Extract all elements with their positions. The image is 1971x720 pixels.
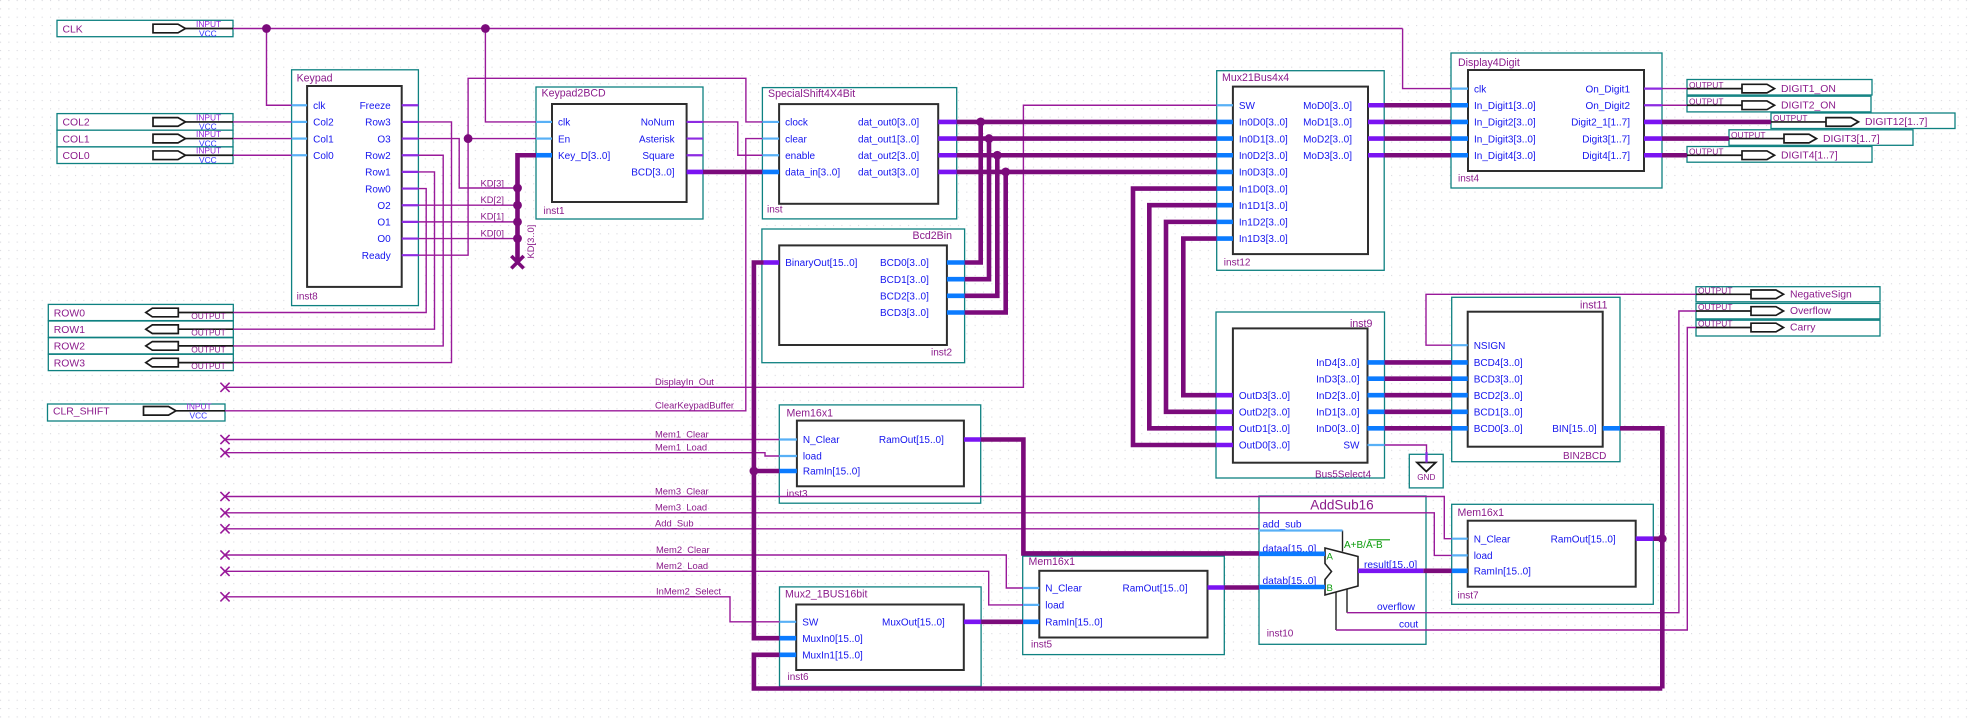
svg-text:ClearKeypadBuffer: ClearKeypadBuffer — [655, 400, 734, 411]
svg-text:In_Digit1[3..0]: In_Digit1[3..0] — [1474, 101, 1536, 112]
wire Keypad Row1 to ROW1 pin — [233, 172, 434, 329]
svg-text:CLR_SHIFT: CLR_SHIFT — [53, 407, 110, 418]
svg-text:O2: O2 — [377, 201, 391, 212]
svg-text:clk: clk — [1474, 84, 1487, 95]
pin stub Keypad Col2 — [292, 121, 308, 123]
net terminator X Mem2_Load — [220, 567, 229, 576]
svg-text:SW: SW — [1239, 101, 1256, 112]
svg-text:MoD0[3..0]: MoD0[3..0] — [1303, 101, 1352, 112]
output pin Overflow — [1696, 302, 1880, 319]
wire Keypad Row2 to ROW2 pin — [233, 155, 443, 346]
svg-text:ROW3: ROW3 — [54, 358, 85, 369]
svg-text:In0D0[3..0]: In0D0[3..0] — [1239, 118, 1288, 129]
bus Bus5 InD3 to BIN2BCD BCD3 — [1385, 376, 1452, 381]
component Keypad2BCD inst1 — [536, 87, 703, 219]
svg-text:MoD2[3..0]: MoD2[3..0] — [1303, 134, 1352, 145]
wire CLK drop to Keypad2BCD clk — [485, 29, 536, 122]
pin stub inst6 MuxOut — [964, 619, 981, 624]
svg-text:inst11: inst11 — [1580, 300, 1608, 312]
bus dat_out0 branch to Bcd2Bin BCD0 — [965, 122, 981, 263]
bus Bus5 OutD0 to Mux21 In1D0 — [1133, 189, 1217, 445]
bus Bus5 InD4 to BIN2BCD BCD4 — [1385, 360, 1452, 365]
svg-text:CLK: CLK — [63, 24, 83, 35]
svg-text:Bcd2Bin: Bcd2Bin — [913, 230, 953, 242]
svg-text:inst4: inst4 — [1458, 174, 1480, 185]
svg-text:MuxIn0[15..0]: MuxIn0[15..0] — [802, 634, 863, 645]
bus inst6 MuxOut to inst5 RamIn — [981, 619, 1023, 624]
junction KD[3] on KD bus — [513, 184, 522, 193]
pin stub Display4Digit Digit3 — [1644, 136, 1662, 141]
net terminator X Mem1_Clear — [220, 435, 229, 444]
svg-text:BCD1[3..0]: BCD1[3..0] — [1474, 408, 1523, 419]
wire On_Digit1 to DIGIT1_ON — [1662, 88, 1687, 90]
svg-text:BCD[3..0]: BCD[3..0] — [631, 168, 675, 179]
svg-text:DisplayIn_Out: DisplayIn_Out — [655, 376, 714, 387]
wire COL2 to Keypad Col2 — [233, 121, 292, 123]
junction dat_out2 branch — [993, 151, 1002, 160]
pin stub inst7 load — [1452, 554, 1468, 556]
wire Add_Sub to AddSub16 add_sub — [225, 528, 1259, 530]
svg-text:Ready: Ready — [362, 251, 391, 262]
pin stub Keypad2BCD Asterisk — [687, 137, 703, 139]
svg-text:Col0: Col0 — [313, 151, 334, 162]
component AddSub16 inst10 adder-subtractor — [1259, 496, 1426, 644]
svg-text:VCC: VCC — [199, 155, 217, 165]
bus Digit4 to DIGIT4 pin — [1662, 153, 1687, 158]
svg-text:dat_out0[3..0]: dat_out0[3..0] — [858, 118, 919, 129]
pin stub Mux21 MoD1 — [1368, 120, 1384, 125]
bus Bus5 InD0 to BIN2BCD BCD0 — [1385, 426, 1452, 431]
svg-text:Mux21Bus4x4: Mux21Bus4x4 — [1222, 72, 1289, 84]
svg-text:BCD0[3..0]: BCD0[3..0] — [880, 258, 929, 269]
pin stub inst6 MuxIn0 — [780, 636, 797, 641]
svg-text:data_in[3..0]: data_in[3..0] — [785, 168, 840, 179]
pin stub Display4Digit clk — [1451, 87, 1468, 89]
pin stub SpecialShift data_in — [762, 170, 779, 175]
svg-text:BCD3[3..0]: BCD3[3..0] — [1474, 374, 1523, 385]
svg-text:N_Clear: N_Clear — [1474, 534, 1511, 545]
pin stub Bus5Select4 InD0 — [1368, 426, 1385, 431]
bus inst3 RamOut to AddSub16 dataa — [981, 440, 1259, 554]
pin stub Mux21 In1D2 — [1217, 220, 1233, 225]
pin stub Bus5Select4 OutD1 — [1216, 426, 1233, 431]
pin stub inst5 load — [1023, 604, 1039, 606]
svg-text:OutD3[3..0]: OutD3[3..0] — [1239, 391, 1290, 402]
svg-text:InD3[3..0]: InD3[3..0] — [1316, 374, 1360, 385]
pin stub BIN2BCD BCD1 — [1452, 409, 1468, 414]
bus dat_out1 to Mux21 In0D1 — [957, 136, 1217, 141]
pin stub Keypad Row3 — [402, 121, 419, 123]
net terminator X InMem2_Select — [220, 592, 229, 601]
net terminator X Mem2_Clear — [220, 550, 229, 559]
component Display4Digit inst4 — [1451, 53, 1662, 188]
svg-text:cout: cout — [1399, 619, 1418, 630]
pin stub inst3 RamIn — [779, 469, 797, 474]
pin stub Bus5Select4 InD2 — [1368, 393, 1385, 398]
junction dat_out1 branch — [985, 134, 994, 143]
svg-text:AddSub16: AddSub16 — [1310, 498, 1374, 513]
bus dat_out2 to Mux21 In0D2 — [957, 153, 1217, 158]
wire DisplayIn_Out net — [225, 105, 1217, 387]
svg-text:add_sub: add_sub — [1263, 519, 1302, 530]
junction CLK / Keypad clk — [262, 24, 271, 33]
wire Keypad Row3 to ROW3 pin — [233, 122, 451, 363]
pin stub Keypad Row1 — [402, 171, 419, 173]
svg-text:InMem2_Select: InMem2_Select — [656, 586, 722, 597]
component Mux2_1BUS16bit inst6 — [780, 587, 982, 687]
wire Ready net to SpecialShift clock — [468, 78, 762, 138]
pin stub Display4Digit Digit2_1 — [1644, 120, 1662, 125]
svg-text:DIGIT12[1..7]: DIGIT12[1..7] — [1865, 117, 1927, 128]
pin stub Mux21 In1D0 — [1217, 186, 1233, 191]
output pin ROW0 — [48, 304, 233, 321]
svg-text:overflow: overflow — [1377, 602, 1416, 613]
input pin COL2 — [57, 112, 233, 131]
svg-text:Row2: Row2 — [365, 151, 391, 162]
wire Mem2_Load to inst5 load — [225, 571, 1023, 605]
net terminator X Mem3_Clear — [220, 492, 229, 501]
svg-text:COL1: COL1 — [63, 134, 90, 145]
output pin DIGIT3 — [1729, 130, 1913, 146]
svg-text:InD0[3..0]: InD0[3..0] — [1316, 424, 1360, 435]
svg-text:Mem16x1: Mem16x1 — [787, 408, 834, 420]
input pin COL1 — [57, 129, 233, 148]
svg-text:MuxOut[15..0]: MuxOut[15..0] — [882, 618, 945, 629]
pin stub Mux21 In1D1 — [1217, 203, 1233, 208]
svg-text:Keypad: Keypad — [297, 73, 333, 85]
svg-text:VCC: VCC — [199, 28, 217, 38]
junction CLK / Keypad2BCD clk — [481, 24, 490, 33]
svg-text:ROW1: ROW1 — [54, 325, 85, 336]
svg-text:inst: inst — [767, 205, 783, 216]
svg-text:In1D0[3..0]: In1D0[3..0] — [1239, 184, 1288, 195]
junction dat_out0 branch — [976, 118, 985, 127]
svg-text:Key_D[3..0]: Key_D[3..0] — [558, 151, 610, 162]
component SpecialShift4X4Bit inst — [762, 88, 956, 219]
output pin DIGIT1_ON — [1687, 80, 1872, 96]
bus dat_out0 to Mux21 In0D0 — [957, 120, 1217, 125]
bus Bus5 InD1 to BIN2BCD BCD1 — [1385, 409, 1452, 414]
svg-text:Col1: Col1 — [313, 134, 334, 145]
svg-text:enable: enable — [785, 151, 815, 162]
wire Mem1_Load to inst3 load — [225, 453, 779, 456]
pin stub SpecialShift dat_out3 — [938, 170, 957, 175]
pin stub Keypad O0 — [402, 237, 419, 239]
pin stub AddSub16 add_sub — [1259, 529, 1343, 531]
svg-text:inst9: inst9 — [1350, 318, 1372, 330]
net terminator X Mem3_Load — [220, 508, 229, 517]
pin stub Keypad2BCD NoNum — [687, 121, 703, 123]
svg-text:ROW0: ROW0 — [54, 308, 85, 319]
output pin DIGIT2_ON — [1687, 96, 1871, 112]
adder trapezoid symbol of AddSub16 — [1325, 531, 1390, 631]
output pin NegativeSign — [1696, 286, 1880, 302]
junction dat_out3 branch — [1001, 168, 1010, 177]
svg-text:load: load — [1474, 551, 1493, 562]
svg-text:Col2: Col2 — [313, 118, 334, 129]
component Mux21Bus4x4 inst12 — [1217, 71, 1385, 271]
svg-text:clear: clear — [785, 134, 807, 145]
pin stub BIN2BCD BCD4 — [1452, 360, 1468, 365]
svg-text:COL2: COL2 — [63, 118, 90, 129]
bus Digit2_1 to DIGIT12 pin — [1662, 120, 1771, 125]
component Mem16x1 inst7 — [1452, 504, 1654, 604]
pin stub Bus5Select4 InD1 — [1368, 409, 1385, 414]
pin stub BIN2BCD BCD2 — [1452, 393, 1468, 398]
svg-text:In0D1[3..0]: In0D1[3..0] — [1239, 134, 1288, 145]
svg-text:Mem1_Load: Mem1_Load — [655, 442, 707, 453]
svg-text:BIN2BCD: BIN2BCD — [1563, 451, 1606, 462]
svg-text:BCD2[3..0]: BCD2[3..0] — [1474, 391, 1523, 402]
pin stub Display4Digit In_Digit4 — [1451, 153, 1468, 158]
bus Bus5 InD2 to BIN2BCD BCD2 — [1385, 393, 1452, 398]
svg-text:Digit2_1[1..7]: Digit2_1[1..7] — [1571, 118, 1630, 129]
bus dat_out1 branch to Bcd2Bin BCD1 — [965, 139, 989, 280]
pin stub Bus5Select4 InD3 — [1368, 376, 1385, 381]
bus KD[3..0] to Keypad2BCD Key_D — [518, 155, 537, 262]
svg-text:OutD0[3..0]: OutD0[3..0] — [1239, 441, 1290, 452]
svg-text:O3: O3 — [377, 134, 391, 145]
junction BIN bus at inst7 RamOut — [1658, 534, 1667, 543]
svg-text:Carry: Carry — [1790, 323, 1816, 334]
svg-text:DIGIT2_ON: DIGIT2_ON — [1781, 100, 1836, 111]
wire CLK drop to Display4Digit clk — [1403, 29, 1451, 89]
svg-text:NSIGN: NSIGN — [1474, 341, 1506, 352]
wire Keypad O2 to KD[2] — [418, 204, 517, 206]
svg-text:RamIn[15..0]: RamIn[15..0] — [803, 467, 860, 478]
pin stub inst3 load — [779, 455, 797, 457]
svg-text:Keypad2BCD: Keypad2BCD — [542, 88, 607, 100]
svg-text:Mem2_Load: Mem2_Load — [656, 560, 708, 571]
pin stub SpecialShift enable — [762, 154, 779, 156]
pin stub BIN2BCD BIN — [1603, 426, 1620, 431]
svg-text:Display4Digit: Display4Digit — [1458, 57, 1520, 69]
input pin CLK — [57, 19, 233, 38]
svg-text:Mem1_Clear: Mem1_Clear — [655, 428, 709, 439]
bus BinaryOut vertical to inst3 RamIn and inst6 MuxIn0 — [754, 263, 780, 639]
svg-text:In1D3[3..0]: In1D3[3..0] — [1239, 234, 1288, 245]
pin stub Keypad O1 — [402, 221, 419, 223]
svg-text:load: load — [803, 452, 822, 463]
svg-text:inst2: inst2 — [931, 348, 953, 359]
wire Keypad O3 to KD[3] — [418, 139, 517, 188]
net terminator X DisplayIn_Out — [220, 383, 229, 392]
bus Bus5 OutD3 to Mux21 In1D3 — [1183, 239, 1216, 396]
component Keypad inst8 — [292, 70, 419, 306]
svg-text:In1D1[3..0]: In1D1[3..0] — [1239, 201, 1288, 212]
pin stub Keypad O3 — [402, 137, 419, 139]
svg-text:RamIn[15..0]: RamIn[15..0] — [1045, 618, 1102, 629]
svg-text:KD[2]: KD[2] — [481, 194, 504, 205]
pin stub Mux21 In0D1 — [1217, 136, 1233, 141]
pin stub Keypad Freeze — [402, 104, 419, 106]
pin stub Keypad2BCD En — [536, 137, 552, 139]
pin stub Keypad2BCD BCD — [687, 170, 703, 175]
svg-text:NoNum: NoNum — [641, 118, 675, 129]
pin stub Bus5Select4 OutD3 — [1216, 393, 1233, 398]
component Bus5Select4 inst9 — [1216, 312, 1385, 480]
bus MoD1 to In_Digit2 — [1384, 120, 1451, 125]
wire COL0 to Keypad Col0 — [233, 154, 292, 156]
svg-text:MoD3[3..0]: MoD3[3..0] — [1303, 151, 1352, 162]
net terminator X Add_Sub — [220, 524, 229, 533]
component Mem16x1 inst3 — [779, 405, 980, 503]
svg-text:inst6: inst6 — [788, 672, 810, 683]
junction Ready net at En row — [464, 134, 473, 143]
pin stub Mux21 MoD0 — [1368, 103, 1384, 108]
pin stub inst3 RamOut — [964, 437, 981, 442]
svg-text:DIGIT1_ON: DIGIT1_ON — [1781, 84, 1836, 95]
wire Mem2_Clear to inst5 N_Clear — [225, 555, 1023, 588]
svg-text:inst1: inst1 — [544, 206, 566, 217]
pin stub Display4Digit Digit4 — [1644, 153, 1662, 158]
pin stub inst3 N_Clear — [779, 438, 797, 440]
pin stub GND terminal — [1425, 452, 1427, 463]
input pin CLR_SHIFT — [48, 401, 226, 421]
bus MoD3 to In_Digit4 — [1384, 153, 1451, 158]
pin stub Keypad Ready — [402, 254, 419, 256]
svg-text:DIGIT4[1..7]: DIGIT4[1..7] — [1781, 150, 1838, 161]
svg-text:clock: clock — [785, 118, 809, 129]
pin stub Keypad2BCD Square — [687, 154, 703, 156]
svg-text:OutD2[3..0]: OutD2[3..0] — [1239, 408, 1290, 419]
bus Bus5 OutD1 to Mux21 In1D1 — [1149, 205, 1216, 428]
bus MoD2 to In_Digit3 — [1384, 136, 1451, 141]
svg-text:inst12: inst12 — [1224, 257, 1251, 268]
svg-text:inst10: inst10 — [1267, 629, 1294, 640]
svg-text:InD4[3..0]: InD4[3..0] — [1316, 358, 1360, 369]
pin stub inst5 RamIn — [1023, 619, 1039, 624]
svg-text:SpecialShift4X4Bit: SpecialShift4X4Bit — [768, 88, 855, 100]
pin stub Keypad clk — [292, 104, 308, 106]
svg-text:MoD1[3..0]: MoD1[3..0] — [1303, 118, 1352, 129]
wire NSIGN to NegativeSign pin — [1426, 294, 1696, 345]
bus dat_out2 branch to Bcd2Bin BCD2 — [965, 155, 998, 296]
svg-text:Square: Square — [642, 151, 675, 162]
svg-text:B: B — [1327, 583, 1333, 594]
pin stub SpecialShift dat_out0 — [938, 120, 957, 125]
bus Bus5 OutD2 to Mux21 In1D2 — [1166, 222, 1217, 412]
svg-text:A+B/A-B: A+B/A-B — [1344, 540, 1383, 551]
pin stub Bcd2Bin BCD1 — [947, 277, 965, 282]
pin stub inst7 RamOut — [1636, 536, 1654, 541]
wire On_Digit2 to DIGIT2_ON — [1662, 104, 1687, 106]
junction KD[2] on KD bus — [513, 201, 522, 210]
pin stub inst7 N_Clear — [1452, 538, 1468, 540]
wire En junction to Keypad2BCD En — [468, 138, 536, 140]
pin stub Mux21 SW — [1217, 104, 1233, 106]
svg-text:On_Digit1: On_Digit1 — [1586, 84, 1631, 95]
svg-text:InD1[3..0]: InD1[3..0] — [1316, 408, 1360, 419]
svg-text:clk: clk — [558, 118, 571, 129]
svg-text:BinaryOut[15..0]: BinaryOut[15..0] — [785, 258, 857, 269]
svg-text:RamOut[15..0]: RamOut[15..0] — [1551, 534, 1616, 545]
output pin ROW2 — [48, 338, 233, 355]
ground GND symbol — [1409, 454, 1443, 488]
svg-text:Row0: Row0 — [365, 184, 391, 195]
svg-text:Mem16x1: Mem16x1 — [1029, 556, 1076, 568]
pin stub inst6 MuxIn1 — [780, 652, 797, 657]
svg-text:inst7: inst7 — [1458, 591, 1480, 602]
wire NoNum to SpecialShift enable — [703, 122, 762, 155]
svg-text:Asterisk: Asterisk — [639, 134, 676, 145]
svg-text:Mem16x1: Mem16x1 — [1458, 507, 1505, 519]
svg-text:KD[3..0]: KD[3..0] — [525, 225, 536, 259]
pin stub Keypad O2 — [402, 204, 419, 206]
svg-text:KD[3]: KD[3] — [481, 177, 504, 188]
svg-text:ROW2: ROW2 — [54, 342, 85, 353]
svg-text:In_Digit2[3..0]: In_Digit2[3..0] — [1474, 118, 1536, 129]
bus MoD0 to In_Digit1 — [1384, 103, 1451, 108]
svg-text:Digit4[1..7]: Digit4[1..7] — [1582, 151, 1630, 162]
pin stub Keypad2BCD Key_D — [536, 153, 552, 158]
svg-text:On_Digit2: On_Digit2 — [1586, 101, 1631, 112]
pin stub Bcd2Bin BCD2 — [947, 293, 965, 298]
pin stub inst6 SW — [780, 621, 797, 623]
svg-text:SW: SW — [802, 618, 819, 629]
svg-text:In1D2[3..0]: In1D2[3..0] — [1239, 218, 1288, 229]
wire Keypad Ready to En junction — [418, 139, 468, 256]
bus dat_out3 to Mux21 In0D3 — [957, 170, 1217, 175]
output pin ROW3 — [48, 354, 233, 371]
svg-text:OUTPUT: OUTPUT — [191, 311, 225, 321]
svg-text:OUTPUT: OUTPUT — [191, 361, 225, 371]
wire AddSub16 overflow to Overflow pin — [1347, 311, 1696, 613]
svg-text:A: A — [1327, 552, 1334, 563]
pin stub Bcd2Bin BCD3 — [947, 310, 965, 315]
pin stub Mux21 In0D2 — [1217, 153, 1233, 158]
pin stub SpecialShift clock — [762, 121, 779, 123]
wire Keypad O0 to KD[0] — [418, 238, 517, 240]
pin stub Mux21 MoD2 — [1368, 136, 1384, 141]
svg-text:inst5: inst5 — [1031, 640, 1053, 651]
pin stub AddSub16 dataa — [1259, 551, 1325, 556]
svg-text:O0: O0 — [377, 234, 391, 245]
pin stub Bus5Select4 OutD0 — [1216, 443, 1233, 448]
bus Digit3 to DIGIT3 pin — [1662, 136, 1729, 141]
svg-text:dat_out1[3..0]: dat_out1[3..0] — [858, 134, 919, 145]
svg-text:In0D2[3..0]: In0D2[3..0] — [1239, 151, 1288, 162]
pin stub Bcd2Bin BinaryOut — [764, 260, 780, 265]
bus inst7 RamOut branch — [1653, 536, 1662, 541]
pin stub inst5 RamOut — [1208, 585, 1225, 590]
pin stub Mux21 In0D3 — [1217, 170, 1233, 175]
pin stub SpecialShift clear — [762, 137, 779, 139]
pin stub Keypad Col0 — [292, 154, 308, 156]
pin stub Bus5Select4 OutD2 — [1216, 409, 1233, 414]
pin stub Keypad Row2 — [402, 154, 419, 156]
wire Bus5Select4 SW to GND — [1385, 445, 1427, 452]
wire Mem3_Load to inst7 load — [225, 513, 1452, 556]
svg-text:RamOut[15..0]: RamOut[15..0] — [1122, 584, 1187, 595]
svg-text:InD2[3..0]: InD2[3..0] — [1316, 391, 1360, 402]
wire Keypad Row0 to ROW0 pin — [233, 189, 426, 313]
pin stub BIN2BCD BCD3 — [1452, 376, 1468, 381]
svg-text:inst3: inst3 — [787, 489, 809, 500]
svg-text:SW: SW — [1343, 441, 1360, 452]
svg-text:En: En — [558, 134, 570, 145]
svg-text:Bus5Select4: Bus5Select4 — [1315, 469, 1372, 480]
pin stub Mux21 MoD3 — [1368, 153, 1384, 158]
svg-text:inst8: inst8 — [297, 292, 319, 303]
pin stub AddSub16 result — [1358, 568, 1423, 573]
bus bottom run to inst6 MuxIn1 — [754, 655, 1662, 689]
pin stub Mux21 In0D0 — [1217, 120, 1233, 125]
svg-text:OutD1[3..0]: OutD1[3..0] — [1239, 424, 1290, 435]
svg-text:OUTPUT: OUTPUT — [191, 328, 225, 338]
svg-text:Mem3_Load: Mem3_Load — [655, 502, 707, 513]
net terminator X on KD bus — [511, 256, 523, 268]
